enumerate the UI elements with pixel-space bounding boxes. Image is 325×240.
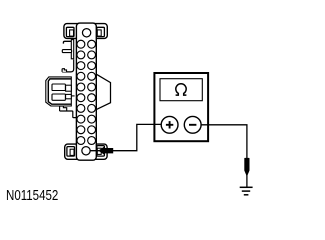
latch outer shell bbox=[46, 77, 72, 106]
top mounting bar bbox=[64, 24, 107, 39]
plus sign bbox=[166, 121, 173, 128]
latch slot 1 bbox=[52, 84, 65, 91]
test lead wire: pin to meter positive bbox=[90, 124, 161, 150]
bottom-left clip inner bbox=[70, 149, 74, 155]
ohm symbol bbox=[176, 84, 187, 95]
latch slot 2 bbox=[52, 94, 65, 100]
bottom single cavity (probed pin) bbox=[82, 147, 90, 155]
latch bottom tab bbox=[60, 106, 67, 111]
ohmmeter body bbox=[154, 73, 208, 141]
ground symbol bbox=[240, 187, 253, 195]
figure label N0115452 bbox=[6, 189, 58, 203]
bottom-left clip outer bbox=[67, 147, 75, 157]
prong flag bbox=[62, 50, 71, 53]
latch top tab bbox=[62, 69, 66, 72]
top-left clip outer bbox=[66, 27, 74, 36]
top-left clip inner bbox=[70, 30, 74, 36]
bottom-right clip outer bbox=[97, 146, 105, 157]
positive terminal bbox=[161, 116, 178, 133]
ohmmeter display bbox=[160, 79, 202, 101]
latch slot 1 right block bbox=[66, 85, 72, 91]
bottom-right clip inner bbox=[97, 148, 101, 154]
latch slot 2 right block bbox=[66, 94, 72, 98]
wire: meter negative to ground bbox=[201, 125, 247, 188]
top-right clip outer bbox=[97, 27, 105, 36]
pin cavities grid (10 rows x 2 cols) bbox=[77, 40, 96, 144]
minus sign bbox=[189, 124, 196, 126]
right wedge key bbox=[97, 74, 111, 109]
latch inner wall bbox=[48, 79, 71, 104]
bottom mounting bar bbox=[65, 144, 107, 159]
probe arrow at pin bbox=[98, 146, 113, 155]
negative terminal bbox=[184, 116, 201, 133]
top-right clip inner bbox=[97, 30, 101, 36]
connector body bbox=[76, 23, 96, 160]
top single cavity bbox=[82, 29, 90, 37]
latch lower connector line to body bbox=[60, 111, 77, 118]
latch elbow to body bbox=[62, 60, 74, 72]
latch right tick bbox=[71, 95, 74, 97]
left bracket prong under top bar bbox=[71, 40, 73, 59]
prong top arm bbox=[63, 41, 71, 43]
inline terminal bullet on ground lead bbox=[244, 158, 249, 177]
